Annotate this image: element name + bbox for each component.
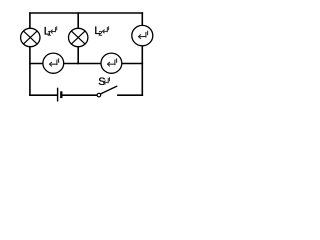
svg-text:2: 2	[99, 31, 103, 38]
